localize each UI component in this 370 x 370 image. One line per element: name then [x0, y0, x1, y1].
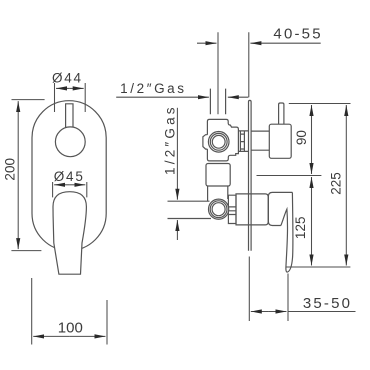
- lever handle front view: [53, 192, 86, 275]
- dim 100 line with arrows: [33, 335, 69, 337]
- svg-text:40-55: 40-55: [273, 26, 322, 43]
- dim d44 extension lines: [55, 83, 86, 112]
- diverter knob box: [269, 124, 291, 158]
- body middle block: [206, 164, 230, 187]
- upper port middle circle: [210, 133, 227, 150]
- svg-text:35-50: 35-50: [303, 295, 352, 312]
- front escutcheon oval plate: [32, 101, 106, 251]
- svg-text:125: 125: [293, 217, 308, 240]
- dim d45 line with arrows: [54, 184, 70, 186]
- right dims middle reference line: [257, 175, 322, 177]
- svg-text:100: 100: [58, 320, 83, 337]
- wall mounting plate: [249, 100, 252, 250]
- dim 125 line with arrows: [311, 177, 313, 222]
- dim 200 extension lines: [11, 100, 44, 251]
- lower port stub block: [228, 195, 236, 223]
- dim 40-55 extension lines: [218, 32, 249, 114]
- dim 225 line with arrows: [345, 105, 347, 183]
- body lower neck: [208, 186, 228, 201]
- diverter stem lines: [251, 131, 269, 150]
- shower outlet pipe on knob: [279, 103, 284, 124]
- lever base cap side view: [268, 192, 292, 225]
- lever blade side view: [281, 192, 293, 272]
- dim d45 extension lines: [53, 182, 87, 197]
- threaded connector to wall plate: [238, 131, 248, 152]
- dim d44 line with arrows: [56, 87, 70, 89]
- right dims top extension line: [289, 103, 351, 105]
- right dims bottom extension line: [286, 266, 350, 268]
- upper port outer circle: [208, 132, 229, 153]
- outlet block through wall: [236, 194, 268, 225]
- label 1/2 Gas second arrow segment: [228, 96, 249, 98]
- left inlet stub bump: [203, 135, 208, 149]
- svg-text:Ø45: Ø45: [54, 169, 85, 184]
- dim 40-55 right arrow: [250, 42, 320, 44]
- top supply pipe walls: [210, 89, 225, 115]
- dim 200 line with arrows: [17, 101, 19, 170]
- temperature indicator slot: [66, 104, 73, 128]
- label 1/2 Gas leader line with arrow to pipe: [116, 96, 209, 98]
- lower port inner circle: [212, 203, 225, 216]
- dim 35-50 extension lines: [249, 257, 288, 322]
- knob circle diameter 44: [55, 127, 85, 157]
- svg-text:1/2″Gas: 1/2″Gas: [163, 104, 178, 175]
- svg-text:Ø44: Ø44: [52, 71, 83, 86]
- dim 35-50 line with outward arrows: [251, 311, 269, 313]
- lower inlet pipe lines: [168, 201, 212, 218]
- vertical leader up arrow to inlet pipe: [176, 220, 178, 240]
- svg-text:200: 200: [3, 158, 18, 181]
- svg-text:90: 90: [294, 130, 309, 145]
- upper port inner circle: [212, 135, 225, 148]
- valve body upper block: [207, 119, 238, 160]
- dim 90 line with arrows: [311, 105, 313, 139]
- lower port middle circle: [210, 201, 227, 218]
- svg-text:1/2″Gas: 1/2″Gas: [120, 81, 187, 96]
- dim 100 extension lines: [32, 278, 107, 345]
- lower port outer circle: [209, 199, 229, 219]
- dim 40-55 left arrow: [197, 42, 217, 44]
- svg-text:225: 225: [329, 172, 344, 195]
- vertical leader down arrow to inlet pipe: [176, 108, 178, 200]
